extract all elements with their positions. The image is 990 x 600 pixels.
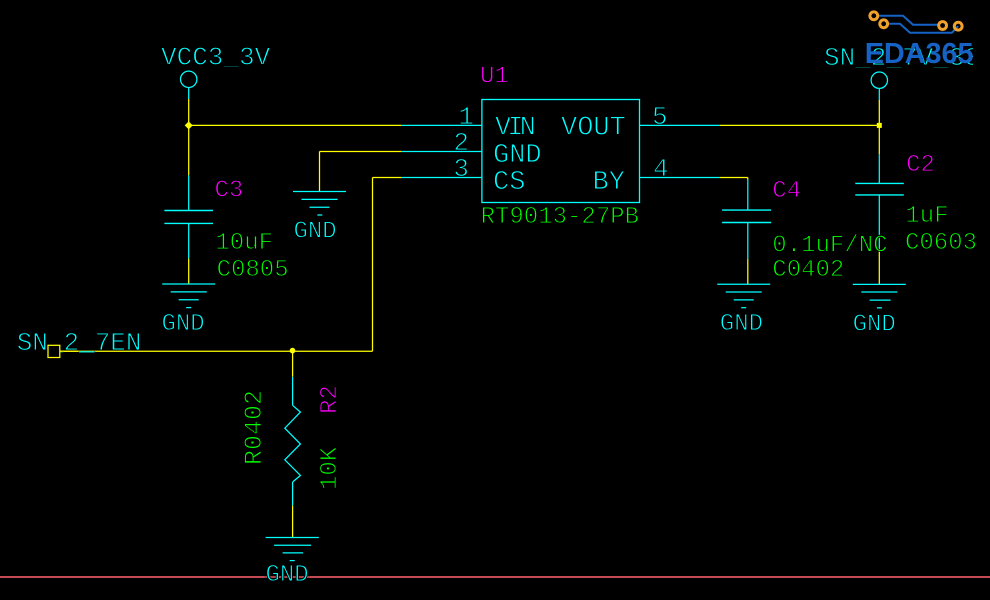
pin stub 4 (BY) — [640, 177, 721, 179]
junction square at SN node — [877, 123, 882, 128]
ground G5 (below R2) — [266, 538, 319, 561]
svg-text:GND: GND — [266, 562, 309, 589]
wire C2 to GND — [878, 250, 880, 284]
pin stub 3 (CS) — [401, 177, 482, 179]
svg-text:C0402: C0402 — [772, 257, 844, 284]
svg-text:SN_2_7EN: SN_2_7EN — [17, 328, 142, 358]
wire pin4 to C4 — [720, 178, 748, 180]
ground G3 (below C4) — [717, 284, 770, 308]
wire EN horizontal — [60, 350, 373, 352]
svg-text:VCC3_3V: VCC3_3V — [161, 43, 271, 73]
svg-text:R0402: R0402 — [240, 390, 269, 465]
resistor R2 — [285, 377, 301, 506]
svg-text:VOUT: VOUT — [561, 114, 626, 144]
wire R2 top — [292, 351, 294, 377]
svg-text:0.1uF/NC: 0.1uF/NC — [772, 233, 887, 260]
svg-text:C4: C4 — [772, 178, 801, 205]
svg-text:GND: GND — [720, 311, 763, 338]
junction dot at R2 node — [290, 348, 296, 354]
wire pin3 horizontal — [373, 177, 402, 179]
pin stub 2 (GND) — [401, 151, 482, 153]
svg-text:3: 3 — [453, 154, 469, 184]
pin stub 1 (VIN) — [401, 124, 482, 126]
wire R2 bottom — [292, 506, 294, 538]
svg-text:10K: 10K — [317, 446, 344, 490]
capacitor C4 — [722, 180, 771, 260]
svg-text:RT9013-27PB: RT9013-27PB — [481, 204, 639, 231]
junction diamond at VCC node — [185, 121, 193, 129]
svg-text:C0603: C0603 — [905, 230, 977, 257]
off-page connector square SN_2_7EN — [48, 345, 60, 357]
schematic frame line (red) — [0, 576, 990, 578]
wire VCC vertical to C3 — [188, 99, 190, 175]
wire C4 to GND — [747, 259, 749, 284]
svg-text:EDA365: EDA365 — [865, 38, 974, 70]
wire EN overdraw near connector — [60, 350, 79, 352]
pin stub 5 (VOUT) — [640, 124, 721, 126]
wire pin2 to GND — [320, 152, 402, 192]
wire pin5 to SN node — [720, 124, 879, 126]
EDA365 logo icon — [870, 12, 962, 33]
svg-text:U1: U1 — [480, 64, 509, 91]
svg-text:1uF: 1uF — [905, 203, 948, 230]
svg-text:BY: BY — [593, 168, 625, 198]
ground G4 (below C2) — [853, 284, 906, 307]
power symbol SN_2_7V_3_3V — [871, 72, 887, 100]
svg-text:5: 5 — [652, 102, 668, 132]
svg-text:VIN: VIN — [495, 114, 535, 144]
svg-text:GND: GND — [162, 311, 205, 338]
svg-text:C0805: C0805 — [217, 257, 289, 284]
op-amp U1 box — [482, 100, 640, 203]
svg-text:4: 4 — [653, 154, 669, 184]
svg-text:GND: GND — [853, 311, 896, 338]
wire pin3 vertical — [372, 178, 374, 352]
svg-text:GND: GND — [294, 218, 337, 245]
svg-text:C3: C3 — [215, 177, 244, 204]
wire VCC to pin 1 — [189, 124, 401, 126]
wire C3 to GND — [188, 259, 190, 285]
svg-text:C2: C2 — [906, 152, 935, 179]
schematic frame line overdraw (red) — [0, 576, 264, 578]
ground G2 (below C3) — [162, 284, 215, 308]
net label underscore over wire (cyan) — [79, 351, 95, 353]
svg-text:CS: CS — [493, 168, 525, 198]
ground G1 (pin2 net) — [293, 192, 346, 216]
svg-text:GND: GND — [493, 141, 542, 171]
svg-text:R2: R2 — [317, 385, 344, 414]
wire SN power vertical — [878, 100, 880, 154]
capacitor C3 — [164, 175, 213, 258]
power symbol VCC3_3V — [181, 71, 197, 99]
svg-text:10uF: 10uF — [215, 230, 273, 257]
capacitor C2 — [855, 154, 904, 250]
